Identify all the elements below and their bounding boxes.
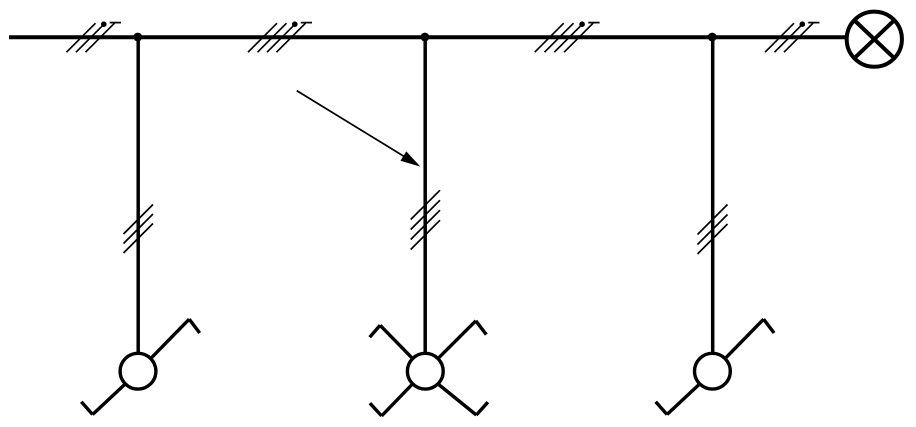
wire: drop 2 vertical [423, 37, 427, 353]
wire: horizontal supply bus [9, 35, 846, 39]
switch S1 (two-way switch) [81, 319, 199, 414]
switch S2 (intermediate switch) [370, 321, 488, 416]
conductor marks group 2 (4 conductors, neutral dot, PE bar) [248, 21, 312, 52]
conductor marks group 1 (3 conductors, neutral dot, PE bar) [67, 21, 122, 52]
conductor marks on drop 3 (3 conductors) [698, 205, 728, 255]
conductor marks on drop 1 (3 conductors) [124, 205, 154, 254]
switch S3 (two-way switch) [656, 319, 774, 414]
wire: drop 1 vertical [136, 37, 140, 353]
annotation arrow pointing to drop 2 [297, 91, 421, 167]
lamp E1 [847, 12, 902, 67]
node C: junction dot drop 3 [708, 33, 717, 42]
node B: junction dot drop 2 [421, 33, 430, 42]
conductor marks group 4 (3 conductors, neutral dot, PE bar) [765, 21, 820, 52]
conductor marks group 3 (4 conductors, neutral dot, PE bar) [535, 21, 600, 52]
node A: junction dot drop 1 [133, 33, 142, 42]
conductor marks on drop 2 (4 conductors) [411, 190, 440, 249]
wire: drop 3 vertical [711, 37, 715, 353]
